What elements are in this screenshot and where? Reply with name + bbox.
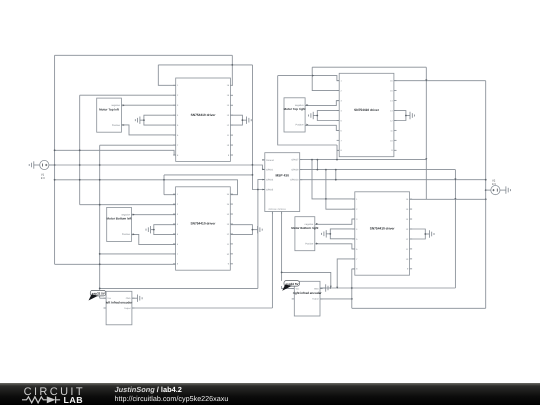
motor block Motor Bottom right box <box>295 217 315 251</box>
driver chip U3 (SN754410) box <box>176 187 231 270</box>
U2 right pin stubs 16-9 <box>394 80 397 82</box>
svg-text:esp32 5V: esp32 5V <box>92 292 105 296</box>
wire driver2 pin16 bus to right trunk <box>394 80 486 82</box>
motor M1 wire positive to driver1 pin6 jog <box>121 125 175 135</box>
junction arrows on y=288 bus <box>336 287 338 289</box>
svg-text:Positive: Positive <box>122 233 131 236</box>
encoder block ENC2 right box <box>294 281 320 316</box>
wire MSP430 pin GPIO18 drop x=272.4 to output bus <box>271 212 273 309</box>
wire vertical x=426.3 from top bus to driver4 pin16 bus <box>425 67 427 199</box>
motor M2 wire negative to driver2 pin3 <box>305 101 339 106</box>
wire riser x=252.45 down to GPIO5 <box>252 65 264 190</box>
wire riser x=312 to driver4 pin1 <box>312 160 355 199</box>
U3 left pin stubs 1-8 <box>173 193 176 195</box>
junction dot ground G7 <box>329 233 331 235</box>
wire source V2 to trunk <box>486 189 491 191</box>
wire vertical x=99.7 bus to left encoder flag <box>99 145 101 298</box>
svg-text:Motor Top right: Motor Top right <box>284 107 306 111</box>
wire encoder ENC1 Vcc feed <box>100 297 106 299</box>
wire bus y=179.8 trunk to driver3 pin16 drop <box>55 180 238 195</box>
Motor Bottom right positive pin arrow <box>316 243 318 245</box>
voltage source V1 plus/minus marks <box>41 164 43 167</box>
Motor Top right positive pin arrow <box>306 124 308 126</box>
ground G8 wire <box>425 233 429 235</box>
motor M4 wire positive to driver4 pin6 <box>315 244 355 249</box>
junction dot ground G6 <box>252 229 254 231</box>
wire strap x=277.7 down to y=145 <box>278 76 337 145</box>
ground G8 symbol (right) <box>428 230 430 237</box>
wire strap x=317.4 <box>316 160 318 170</box>
wire bus y=264.3 trunk to driver3 pin8 <box>55 263 176 265</box>
svg-text:SN754410 driver: SN754410 driver <box>354 108 380 112</box>
junction dot ground G1 <box>143 119 145 121</box>
wire driver2 pin8 riser x=337 to GPIO7 bus <box>336 145 338 160</box>
U1 left pin stubs 1-8 <box>173 84 176 86</box>
ground G1 symbol (left) <box>139 116 141 123</box>
svg-text:http://circuitlab.com/cyp5ke22: http://circuitlab.com/cyp5ke226xaxu <box>115 394 229 403</box>
junction dots right trunk <box>485 179 487 181</box>
wire bus y=253.9 to driver3 pin7 <box>100 253 176 255</box>
wire source V1 to trunk <box>49 164 55 166</box>
svg-text:GND: GND <box>126 297 131 300</box>
MSP430 left pin stubs <box>262 159 265 161</box>
svg-text:Output: Output <box>312 298 319 301</box>
svg-text:GPIO7: GPIO7 <box>291 159 299 162</box>
wire GPIO9 bus y=169.6 <box>300 169 456 171</box>
svg-text:LAB: LAB <box>64 396 84 405</box>
CircuitLab logo resistor zigzag wire <box>22 397 47 403</box>
motor M3 wire negative to driver3 pin3 <box>131 214 175 216</box>
wire driver1 pin1 loop via x=158.3 <box>158 65 175 85</box>
wire bus y=64.9 over driver1 <box>158 64 252 66</box>
driver chip U4 (SN754410) box <box>355 192 410 275</box>
ground G2 wire <box>242 119 246 121</box>
Motor Top left positive pin arrow <box>123 124 125 126</box>
svg-text:9 V: 9 V <box>41 177 45 180</box>
CircuitLab logo diode symbol <box>47 397 56 404</box>
wire bus y=308 left encoder output to MSP430 riser <box>132 307 273 309</box>
wire flagR to encoderR Vcc <box>282 286 295 289</box>
wire bus y=204.7 to driver3 pin2 <box>80 204 176 206</box>
wire bus y=288.4 encoder row to GPIO riser <box>100 287 258 289</box>
driver4 right ground loop wires pins13-12 <box>410 229 426 239</box>
svg-text:esp32 5V: esp32 5V <box>285 282 298 286</box>
wire bus y=145.2 to driver1 pin7 <box>100 144 176 146</box>
motor M1 wire negative to driver1 pin3 <box>121 104 175 106</box>
encoder ENC1 pin stubs <box>104 297 107 299</box>
driver1 right ground loop wires pins13-12 <box>230 115 242 125</box>
voltage source V2 plus/minus marks <box>496 189 498 192</box>
U1 right pin stubs 16-9 <box>230 84 233 86</box>
junction dots left trunk <box>54 149 56 151</box>
MSP430 right pin stubs <box>300 159 303 161</box>
junction dot ground G3 <box>316 115 318 117</box>
wire bus y=308.3 driver4 pin8 riser to right trunk <box>352 307 486 309</box>
wire top bus y=55.3 from left trunk to driver1 pin16 riser <box>55 54 233 56</box>
wire right trunk x=455.4 GPIO9 net <box>454 170 456 288</box>
svg-text:Motor Bottom left: Motor Bottom left <box>107 217 132 221</box>
ground G11 symbol (left of V1) <box>33 161 35 168</box>
wire vertical x=164 strap <box>163 175 165 195</box>
wire vertical x=79.7 bus <box>79 95 81 205</box>
net flag 'esp32 5V' pointer tail <box>282 285 292 291</box>
svg-text:Ground: Ground <box>266 159 274 162</box>
svg-text:SN754410 driver: SN754410 driver <box>191 222 217 226</box>
svg-text:GND: GND <box>314 287 319 290</box>
wire bus y=174.9 to MSP430 GPIO5 riser <box>164 174 252 176</box>
svg-text:left infrad encoder: left infrad encoder <box>106 300 133 304</box>
wire driver4 pin16 bus y=199.3 <box>410 198 486 200</box>
svg-text:Output: Output <box>124 307 131 310</box>
svg-text:9 V: 9 V <box>492 183 496 186</box>
U2 left pin stubs 1-8 <box>337 80 340 82</box>
wire bus y=165 from source V1 to MSP430 GPIO1 jog <box>49 165 265 169</box>
ground G3 symbol (left) <box>312 112 314 119</box>
svg-text:MSP 430: MSP 430 <box>275 174 289 178</box>
svg-text:Positive: Positive <box>305 243 314 246</box>
wire strap x=335.8 <box>335 170 337 180</box>
ground G7 wire <box>326 233 330 235</box>
Motor Top right negative pin arrow <box>306 104 308 106</box>
Motor Bottom right negative pin arrow <box>316 223 318 225</box>
junction marks on GPIO buses <box>311 159 313 161</box>
svg-text:right infrad encoder: right infrad encoder <box>293 291 323 295</box>
ground G6 wire <box>252 229 257 231</box>
ground G5 symbol (left) <box>150 226 152 233</box>
driver chip U1 (SN754410) box <box>176 78 231 161</box>
svg-text:Motor Bottom right: Motor Bottom right <box>291 226 318 230</box>
wire left trunk vertical x=54.6 <box>54 55 56 264</box>
motor block Motor Bottom left box <box>107 207 132 241</box>
ground G1 wire <box>140 119 144 121</box>
junction dot ground G8 <box>424 233 426 235</box>
ground G9 wire encoder ENC1 GND <box>132 297 138 299</box>
driver3 left ground loop wires pins4-5 <box>154 225 176 235</box>
encoder block ENC1 left box <box>106 291 132 325</box>
wire GPIO7 bus y=159.6 <box>300 159 427 161</box>
junction arrow x=330.8 on encoder bus <box>330 286 332 288</box>
wire riser x=325.9 to driver4 pin2 <box>326 170 355 210</box>
junction dot ground G5 <box>153 229 155 231</box>
wire bus y=150.3 trunk to driver1 pin8 jog <box>55 150 176 155</box>
driver4 left ground loop wires pins4-5 <box>330 229 355 239</box>
motor M4 wire negative to driver4 pin3 <box>315 219 355 224</box>
svg-text:Motor Top left: Motor Top left <box>99 107 119 111</box>
junction arrow driver2 pin2 feed <box>312 75 314 77</box>
wire bus y=288 encoderR/GPIO9 return <box>320 287 455 289</box>
driver2 right ground loop wires pins13-12 <box>394 111 406 121</box>
Motor Bottom left positive pin arrow <box>133 233 135 235</box>
wire y=194.7 to driver3 pin1 <box>164 194 176 196</box>
MSP430 left pin arrows <box>263 159 265 161</box>
ground G9 symbol (right) <box>137 295 139 302</box>
wire right trunk x=485.7 <box>485 81 487 309</box>
wire MSP430 pin GPIO19 drop x=281.6 to right flag <box>281 212 283 281</box>
MSP430 bottom pin stubs <box>271 212 273 215</box>
driver3 right ground loop wires pins13-12 <box>231 225 253 235</box>
svg-text:Positive: Positive <box>112 124 121 127</box>
voltage source V2 circle <box>491 186 500 195</box>
voltage source V1 circle <box>40 160 49 169</box>
net flag 'esp32 5V' pointer tail <box>89 294 99 300</box>
net flag 'esp32 5V' bubble <box>90 290 105 296</box>
svg-text:negative: negative <box>121 214 130 217</box>
ground G4 wire <box>406 115 410 117</box>
wire driver2 pin2 feed x=312.2 <box>312 67 339 90</box>
U3 right pin stubs 16-9 <box>230 193 233 195</box>
microcontroller U5 MSP430 box <box>265 153 300 212</box>
Motor Bottom left negative pin arrow <box>133 214 135 216</box>
motor block Motor Top right box <box>284 98 305 132</box>
motor block Motor Top left box <box>97 98 122 132</box>
svg-text:negative: negative <box>295 104 304 107</box>
driver2 left ground loop wires pins4-5 <box>317 111 339 121</box>
svg-text:GPIO19: GPIO19 <box>278 208 287 211</box>
svg-text:GPIO9: GPIO9 <box>291 169 299 172</box>
wire source V1 to ground <box>34 164 40 166</box>
ground G3 wire <box>313 115 317 117</box>
svg-text:GPIO18: GPIO18 <box>268 208 277 211</box>
svg-text:SN754410 driver: SN754410 driver <box>370 227 396 231</box>
ground G10 wire encoder ENC2 GND <box>320 287 326 289</box>
ground G2 symbol (right) <box>246 116 248 123</box>
ground G6 symbol (right) <box>257 226 259 233</box>
ground G7 symbol (left) <box>325 230 327 237</box>
junction arrows x=426.3 <box>425 79 427 81</box>
svg-text:negative: negative <box>111 104 120 107</box>
net flag 'esp32 5V' bubble <box>284 281 299 287</box>
svg-text:SN754410 driver: SN754410 driver <box>191 113 217 117</box>
svg-text:GPIO1: GPIO1 <box>266 168 274 171</box>
motor M3 wire positive to driver3 pin6 jog <box>131 234 175 244</box>
wire GPIO10 bus y=179.7 to V2 trunk <box>300 179 486 181</box>
junction dot ground G2 <box>242 119 244 121</box>
wire bus y=272.4 to drop x=330.8 <box>282 272 331 288</box>
driver1 left ground loop wires pins4-5 <box>144 115 176 125</box>
junction dot GPIO19 riser <box>281 272 283 274</box>
U4 right pin stubs 16-9 <box>410 198 413 200</box>
svg-text:negative: negative <box>305 223 314 226</box>
wire driver1 pin16 riser x=232.3 <box>231 55 233 85</box>
wire GPIO3 branch riser x=257.9 <box>258 180 265 289</box>
U4 left pin stubs 1-8 <box>352 198 355 200</box>
ground G5 wire <box>151 229 154 231</box>
wire driver2 pin8 stub link <box>337 149 339 151</box>
encoder ENC2 pin stubs <box>292 288 295 290</box>
svg-text:GPIO5: GPIO5 <box>266 188 274 191</box>
wire driver4 pin8 drop x=351.8 <box>352 269 355 308</box>
svg-text:JustinSong / lab4.2: JustinSong / lab4.2 <box>115 385 182 394</box>
wire driver4 pin7 drop x=337.2 <box>337 259 355 288</box>
svg-text:GPIO10: GPIO10 <box>290 179 299 182</box>
motor M2 wire positive to driver2 pin6 <box>305 125 339 130</box>
ground G12 symbol (right of V2) <box>505 186 507 193</box>
wire bus y=75.6 to driver2 pin1 jog <box>278 76 340 81</box>
svg-text:Positive: Positive <box>296 124 305 127</box>
wire bus y=66.5 over driver2 <box>312 66 426 68</box>
junction dot ground G4 <box>405 115 407 117</box>
wire source V2 to ground <box>500 189 506 191</box>
svg-text:GPIO3: GPIO3 <box>266 179 274 182</box>
wire bus y=95.2 to driver1 pin2 <box>80 94 176 96</box>
wire encoder ENC2 output to riser x=351.5 <box>320 298 352 300</box>
Motor Top left negative pin arrow <box>123 104 125 106</box>
ground G4 symbol (right) <box>409 112 411 119</box>
driver chip U2 (SN754410) box <box>339 73 394 156</box>
ground G10 symbol (right) <box>325 284 327 291</box>
